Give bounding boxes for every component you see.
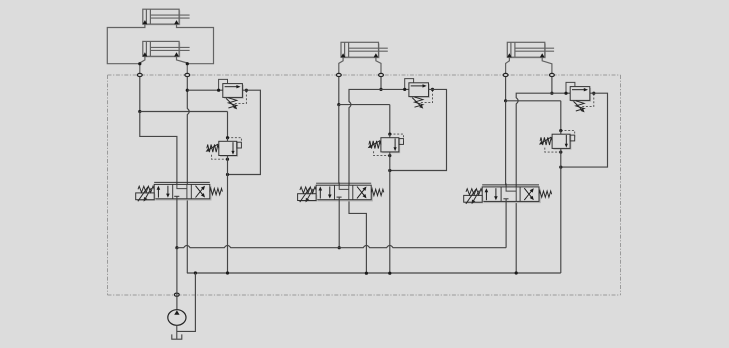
wire tank return branch [177,273,196,331]
relief valve F2 inlet junction [403,88,406,91]
port B3 on boundary [550,73,555,76]
system boundary dashed enclosure [108,75,621,295]
pressure valve RV2 side tab [399,139,404,145]
wire A1 down-jog to valve V1 top-left port [140,112,177,190]
directional valve V1 solenoid arrow [138,187,151,202]
directional valve V2 body [316,183,373,201]
directional valve V1 proportional solenoid [136,193,156,201]
port B2 on boundary [379,73,384,76]
pressure valve RV3 spring adjust arrow [541,137,551,143]
cylinder CYL2 (section 2) [341,42,388,58]
directional valve V1 centre position A to B-T bridge [177,184,187,188]
directional valve V2 proportional solenoid [298,194,318,202]
wire B3 to relief valve F3 inlet [552,92,570,94]
junction relief F1 return joins RV1 return [226,173,229,176]
tank T1 [172,334,182,339]
directional valve V1 right return spring [210,188,223,194]
port A2 on boundary [336,73,341,76]
wire port A3 down to junction [505,77,507,101]
wire valve V2 P port down to P trunk [338,197,340,248]
pressure valve RV2 bottom pilot dashed [374,151,390,156]
pressure valve RV3 spring [540,137,552,145]
directional valve V2 centre position blocked P [337,196,342,198]
relief valve F3 pilot loop to box top [566,82,575,93]
relief valve F1 spring [228,98,236,108]
junction node B2 [379,88,382,91]
T return trunk line [187,272,561,274]
junction node A1 branch [138,110,141,113]
wire port B3 down to junction [551,77,553,93]
wire cylinder CYL2 left port to port A2 [339,57,343,75]
wire cylinder CYL1B left port to node A1 [140,56,145,75]
wire port B2 down to junction [380,77,382,90]
directional valve V1 left position arrows [157,186,170,198]
junction T trunk valve V3 T [515,271,518,274]
directional valve V1 centre position B-T through line [186,184,188,198]
pressure valve RV2 body [381,138,400,154]
pressure valve RV3 top junction [559,129,562,132]
directional valve V1 left spring [138,186,154,192]
wire cylinder CYL1A right port loop to node B1 [177,24,214,64]
cylinder CYL1A (top, section 1) [143,9,190,25]
junction node B1 to relief [186,89,189,92]
directional valve V3 right position crossed arrows [524,188,534,200]
wire pressure valve RV1 through-line down to T trunk (hops P trunk) [227,138,229,273]
wire A1 branch to pressure valve RV1 top (hops B1 line) [140,111,228,113]
junction relief F3 return joins RV3 return [559,166,562,169]
wire relief valve F2 outlet to return drop [390,89,447,170]
wire cylinder CYL1B right port to node B1 [177,56,188,75]
pump P1 [168,310,186,326]
relief valve F3 pilot line dashed [582,94,594,106]
junction T trunk tank branch [194,271,197,274]
relief valve F3 spring adjust arrow [574,101,583,110]
wire port B1 down through valve V1 to T trunk (hop over A branch) [187,77,189,273]
junction relief F2 return joins RV2 return [388,169,391,172]
pressure valve RV1 body [219,141,238,157]
port A3 on boundary [503,73,508,76]
directional valve V3 proportional solenoid [464,195,484,203]
directional valve V2 right position crossed arrows [357,187,367,199]
junction node A2 branch [337,103,340,106]
wire relief valve F1 outlet to return drop [228,90,261,174]
pressure valve RV2 bottom junction [388,154,391,157]
wire A3 branch to pressure valve RV3 top (hops B3 feed) [506,100,561,102]
junction T trunk valve V2 T [365,272,368,275]
wire cylinder CYL3 left port to port A3 [506,57,510,75]
wire cylinder CYL2 right port to port B2 [376,57,381,75]
wire B2 to relief valve F2 inlet [381,88,409,90]
junction T trunk RV2 return [388,272,391,275]
wire port A2 down to junction [338,77,340,105]
wire relief valve F3 outlet to return drop [561,93,608,167]
junction node A3 branch [504,99,507,102]
junction node B3 [550,92,553,95]
directional valve V3 solenoid arrow [466,189,479,204]
directional valve V1 body [154,182,211,200]
junction node B1 loop [186,62,189,65]
directional valve V2 solenoid arrow [300,188,313,203]
directional valve V2 right return spring [371,189,384,195]
directional valve V3 left spring [466,189,482,195]
wire B3 feed to valve V3 top-right port (hops A3 branch) [516,93,552,273]
wire A2 down to valve V2 top-left port [338,105,340,190]
pressure valve RV1 spring adjust arrow [208,144,218,150]
directional valve V2 left spring [300,187,316,193]
port P pump on boundary [174,293,179,296]
P supply trunk line with hops [177,245,506,247]
pressure valve RV2 spring adjust arrow [370,141,380,147]
directional valve V3 centre position blocked P [503,198,508,200]
relief valve F2 body [409,83,430,98]
pressure valve RV2 spring [369,141,381,149]
pressure valve RV2 top pilot dashed [390,134,404,141]
wire cylinder CYL3 right port to port B3 [542,57,552,75]
wire valve V1 P port down to P trunk and pump [176,196,178,247]
pressure valve RV1 side tab [237,142,242,148]
relief valve F1 pilot line dashed [235,91,247,103]
relief valve F2 spring adjust arrow [412,98,421,107]
junction T trunk RV1 return [226,271,229,274]
directional valve V3 right return spring [539,191,552,197]
pressure valve RV3 bottom pilot dashed [545,148,561,153]
junction node A1 loop [138,62,141,65]
relief valve F3 body [570,87,591,102]
directional valve V1 right position crossed arrows [196,186,206,198]
relief valve F2 pilot line dashed [421,90,433,102]
relief valve F1 pilot loop to box top [219,79,228,90]
pressure valve RV1 top junction [226,136,229,139]
directional valve V3 left position arrows [485,188,498,200]
wire pump outlet to tank [176,325,178,339]
wire pressure valve RV3 through-line down to T trunk end [560,130,562,273]
wire pressure valve RV2 through-line down to T trunk (hops P trunk) [389,134,391,273]
relief valve F1 inlet junction [217,89,220,92]
relief valve F2 pilot loop to box top [405,79,414,90]
wire A2 branch to pressure valve RV2 top (hops B2 feed) [339,104,390,106]
pressure valve RV3 top pilot dashed [561,131,575,138]
pressure valve RV3 side tab [570,135,575,141]
directional valve V3 centre position A to B-T bridge [506,187,516,191]
pressure valve RV3 bottom junction [559,151,562,154]
directional valve V2 left position arrows [319,187,332,199]
relief valve F3 outlet junction [592,92,595,95]
junction P trunk start [175,246,178,249]
relief valve F1 outlet junction [245,89,248,92]
directional valve V2 centre position A to B-T bridge [339,185,349,189]
wire cylinder CYL1A left port loop to node A1 [107,24,145,64]
directional valve V1 centre position blocked P [174,195,179,197]
relief valve F1 body [223,84,244,99]
wire B2 feed to valve V2 top-right port then T route (hops A2 branch) [349,89,381,273]
wire A3 down to valve V3 top-left port [505,101,508,192]
port A1 on boundary [137,73,142,76]
directional valve V3 centre position B-T through line [515,187,517,202]
wire valve V3 P port down to P trunk end [505,199,507,248]
pressure valve RV1 bottom pilot dashed [212,155,228,160]
cylinder CYL3 (section 3) [507,42,554,58]
junction valve V2 P at P trunk [338,246,341,249]
wire B1 to relief valve F1 inlet [187,89,223,91]
pressure valve RV1 spring [207,145,219,153]
relief valve F2 spring [415,97,423,107]
pressure valve RV3 body [552,134,571,150]
port B1 on boundary [185,73,190,76]
cylinder CYL1B (lower, section 1) [143,41,190,57]
relief valve F1 spring adjust arrow [226,98,235,107]
wire port A1 down to junction [139,77,141,112]
directional valve V3 body [482,185,541,203]
relief valve F3 spring [576,101,584,111]
directional valve V2 centre position B-T through line [348,185,350,200]
pressure valve RV1 top pilot dashed [228,138,242,145]
wire P trunk down to pump [176,248,178,310]
pressure valve RV2 top junction [388,133,391,136]
relief valve F2 outlet junction [431,88,434,91]
relief valve F3 inlet junction [564,92,567,95]
pressure valve RV1 bottom junction [226,158,229,161]
